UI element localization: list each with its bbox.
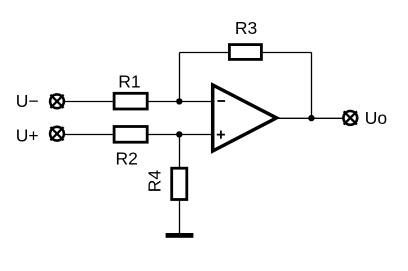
svg-text:U−: U−: [16, 91, 39, 111]
wire U- terminal to R1: [65, 101, 114, 103]
resistor R3: [229, 18, 261, 60]
svg-text:R3: R3: [235, 18, 257, 38]
node C junction dot: [308, 115, 314, 121]
svg-text:R2: R2: [116, 149, 138, 169]
wire R4 to ground: [179, 201, 181, 236]
ground: [166, 233, 194, 238]
wire op-amp output to node C: [276, 117, 312, 119]
terminal U+: [16, 125, 64, 145]
wire R1 to node A: [149, 101, 179, 103]
wire R3 to output branch: [262, 52, 311, 54]
resistor R1: [114, 71, 147, 109]
svg-text:R1: R1: [118, 71, 140, 91]
wire node B to op-amp non-inverting input: [179, 134, 213, 136]
terminal U-: [16, 91, 64, 111]
resistor R2: [114, 127, 147, 169]
wire node C to Uo terminal: [312, 117, 343, 119]
svg-text:Uo: Uo: [365, 108, 387, 128]
wire vertical down to output node: [311, 53, 313, 119]
wire U+ terminal to R2: [65, 134, 114, 136]
svg-text:U+: U+: [16, 125, 39, 145]
svg-text:R4: R4: [145, 170, 165, 193]
wire node A to op-amp inverting input: [179, 101, 213, 103]
node B junction dot: [176, 131, 182, 137]
wire node A up to R3 left: [179, 53, 181, 102]
terminal Uo: [343, 108, 387, 128]
op-amp U1: [213, 85, 277, 151]
wire node B down to R4: [179, 135, 181, 168]
wire top left horizontal to R3: [180, 52, 230, 54]
wire R2 to node B: [149, 134, 179, 136]
resistor R4: [145, 168, 187, 199]
node A junction dot: [176, 98, 182, 104]
